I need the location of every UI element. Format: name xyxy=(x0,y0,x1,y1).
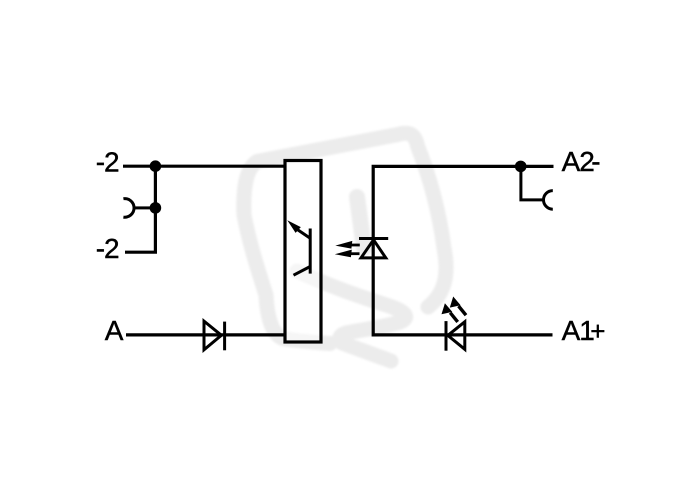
svg-text:A: A xyxy=(105,315,124,346)
svg-text:+: + xyxy=(590,316,605,346)
svg-text:-2: -2 xyxy=(96,147,119,178)
svg-text:-2: -2 xyxy=(96,233,119,264)
svg-text:A2: A2 xyxy=(562,146,595,177)
svg-text:-: - xyxy=(591,146,600,177)
